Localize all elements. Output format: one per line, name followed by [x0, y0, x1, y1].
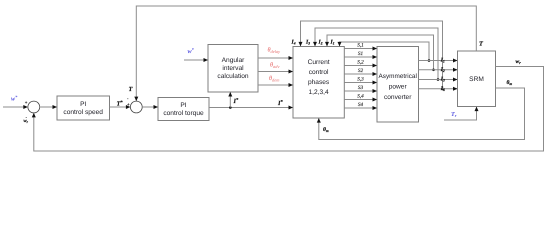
node: junction dot I2 tap — [432, 69, 435, 72]
wire: theta_adv to current control block — [258, 70, 293, 74]
wire: gate signal S4 — [344, 102, 377, 110]
svg-text:w*: w* — [188, 47, 195, 55]
svg-text:w*: w* — [11, 95, 18, 103]
svg-text:phases: phases — [308, 79, 330, 86]
svg-text:S,1: S,1 — [357, 43, 364, 49]
svg-text:+: + — [127, 102, 130, 107]
wire: gate signal S3 — [344, 85, 377, 93]
svg-text:control speed: control speed — [63, 109, 103, 116]
svg-text:Asymmetrical: Asymmetrical — [379, 73, 417, 80]
wire: theta_dem to current control block — [258, 83, 293, 87]
wire: speed reference input — [3, 105, 28, 109]
wire: I* from torque controller to current control block — [209, 106, 293, 110]
wire: junction to PI speed controller — [40, 105, 57, 109]
svg-text:S,4: S,4 — [357, 94, 364, 100]
summing junction S1 (speed error) — [28, 101, 40, 113]
block: PI control torque — [158, 98, 209, 121]
svg-text:interval: interval — [222, 65, 244, 72]
svg-text:calculation: calculation — [217, 73, 248, 80]
wire: gate signal S,2 — [344, 60, 377, 68]
svg-text:SRM: SRM — [469, 76, 484, 83]
svg-text:S1: S1 — [358, 51, 364, 57]
svg-text:control torque: control torque — [163, 110, 204, 117]
block: Angular interval calculation — [208, 45, 258, 93]
svg-text:S,3: S,3 — [357, 77, 364, 83]
wire: gate signal S2 — [344, 68, 377, 76]
svg-text:θm: θm — [323, 127, 329, 133]
svg-text:θdelay: θdelay — [268, 47, 281, 55]
svg-text:converter: converter — [384, 94, 412, 101]
svg-text:control: control — [309, 69, 329, 76]
wire: gate signal S,3 — [344, 77, 377, 85]
wire: torque junction to PI torque controller — [142, 105, 158, 109]
svg-text:θm: θm — [507, 80, 513, 86]
wire: phase current I3 converter to SRM — [419, 78, 458, 82]
node: junction dot on I* wire — [229, 106, 232, 109]
svg-text:PI: PI — [80, 101, 86, 108]
svg-text:I2: I2 — [440, 67, 445, 73]
block: Current control phases 1,2,3,4 — [293, 47, 344, 119]
svg-text:I*: I* — [277, 99, 284, 107]
svg-text:-: - — [127, 96, 129, 101]
svg-text:power: power — [389, 84, 408, 91]
svg-text:1,2,3,4: 1,2,3,4 — [309, 89, 329, 96]
wire: phase current I4 converter to SRM — [419, 87, 458, 91]
summing junction S2 (torque error) — [130, 101, 142, 113]
wire: rotor speed w_r feedback (SRM to speed junction) — [32, 67, 544, 152]
wire: speed reference input to angular interval block — [184, 58, 208, 62]
svg-text:T: T — [129, 86, 134, 93]
node: junction dot I1 tap — [428, 59, 431, 62]
svg-text:θadv: θadv — [270, 62, 279, 70]
svg-text:S,2: S,2 — [357, 60, 364, 66]
svg-text:I3: I3 — [305, 39, 310, 45]
svg-text:Angular: Angular — [222, 57, 246, 64]
wire: rotor position theta_m feedback (SRM to current control) — [317, 88, 525, 140]
svg-text:wr: wr — [24, 118, 29, 124]
wire: phase current I1 converter to SRM — [419, 59, 458, 63]
wire: gate signal S,4 — [344, 94, 377, 102]
block: PI control speed — [57, 96, 110, 120]
block: Asymmetrical power converter — [377, 47, 419, 123]
svg-text:S3: S3 — [358, 85, 364, 91]
svg-text:PI: PI — [180, 102, 186, 109]
block: SRM motor — [458, 51, 496, 107]
wire: phase current I2 converter to SRM — [419, 68, 458, 72]
svg-text:T*: T* — [117, 100, 124, 108]
wire: gate signal S,1 — [344, 43, 377, 51]
svg-text:T: T — [479, 41, 484, 48]
svg-text:S4: S4 — [358, 102, 364, 108]
svg-text:Tr: Tr — [451, 111, 457, 118]
wire: current feedback I2 loop — [325, 35, 434, 70]
svg-text:wr: wr — [516, 59, 522, 65]
svg-text:I3: I3 — [440, 77, 445, 83]
svg-text:I4: I4 — [291, 39, 296, 45]
wire: I* branch up into angular interval block — [228, 92, 232, 108]
wire: current feedback I1 loop — [338, 42, 430, 61]
wire: theta_delay to current control block — [258, 56, 293, 60]
wire: current feedback I3 loop — [313, 28, 438, 80]
svg-text:I1: I1 — [440, 58, 445, 64]
wire: gate signal S1 — [344, 51, 377, 59]
svg-text:I1: I1 — [330, 39, 335, 45]
svg-text:I2: I2 — [318, 39, 323, 45]
svg-text:I*: I* — [233, 97, 240, 105]
svg-text:θdem: θdem — [269, 75, 279, 83]
svg-text:I4: I4 — [440, 86, 445, 92]
svg-text:S2: S2 — [358, 68, 364, 74]
node: junction dot I4 tap — [441, 88, 444, 91]
svg-text:+: + — [25, 100, 28, 105]
wire: T* from speed controller to torque summing junction — [110, 105, 131, 109]
svg-text:Current: Current — [308, 59, 330, 66]
node: junction dot I3 tap — [437, 78, 440, 81]
wire: load torque input T_r — [444, 107, 479, 120]
wire: torque feedback T (SRM top to torque junction) — [134, 6, 476, 101]
wire: current feedback I4 loop — [299, 21, 443, 89]
